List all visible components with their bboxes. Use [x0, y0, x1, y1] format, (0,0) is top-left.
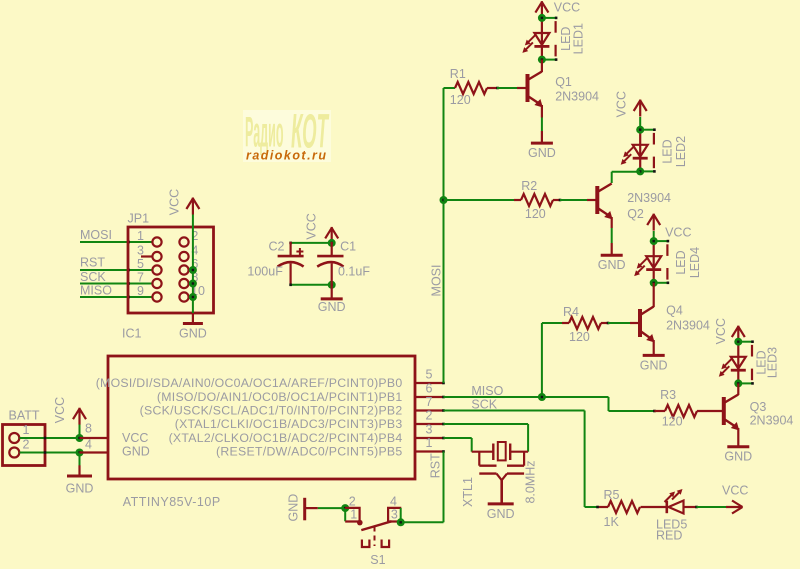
Q1 collector wire [541, 60, 543, 72]
svg-text:BATT: BATT [9, 409, 40, 423]
wire MOSI junction to R2 [444, 199, 515, 201]
IC U1 ATTINY85 outline [108, 356, 415, 479]
Q4 collector wire [653, 283, 655, 307]
IC pin label PB2 [140, 404, 403, 418]
LED4 name labels [674, 247, 702, 278]
svg-text:2: 2 [426, 409, 433, 423]
svg-text:1: 1 [350, 508, 357, 522]
VCC label LED3 [714, 318, 728, 344]
VCC label LED2 [615, 91, 629, 117]
wire battery GND node down [79, 453, 81, 467]
wire RST to switch [401, 521, 444, 523]
junction JP1 pin6 [189, 266, 197, 274]
crystal XTL1 left lead [472, 451, 494, 453]
svg-text:5: 5 [426, 368, 433, 382]
svg-text:C1: C1 [340, 240, 356, 254]
svg-text:VCC: VCC [53, 397, 67, 423]
crystal XTL1 right lead [510, 451, 528, 453]
svg-text:7: 7 [137, 271, 144, 285]
junction MISO R4 [538, 393, 546, 401]
S1 pin number 3 [391, 508, 398, 522]
wire BATT pin2 to GND node [20, 451, 80, 454]
R3 name label [660, 388, 676, 402]
wire MISO jog down [608, 397, 610, 411]
svg-text:3: 3 [426, 423, 433, 437]
VCC symbol right arrow [726, 501, 743, 514]
svg-text:Q2: Q2 [627, 207, 644, 221]
svg-text:R2: R2 [521, 179, 537, 193]
junction JP1 pin8 [189, 280, 197, 288]
ground symbol below JP1 [183, 322, 203, 325]
svg-text:2N3904: 2N3904 [627, 191, 671, 205]
svg-text:GND: GND [598, 258, 626, 272]
connector BATT outline [3, 425, 46, 466]
svg-text:8: 8 [85, 422, 92, 436]
wire C2 bottom to C1 bottom [289, 284, 331, 287]
svg-text:R5: R5 [604, 488, 620, 502]
svg-text:2: 2 [23, 437, 30, 451]
LED2 name labels [660, 136, 688, 167]
wire net MISO to JP1 pin9 [80, 296, 153, 299]
GND label below JP1 [179, 327, 207, 341]
watermark text radiokot.ru [246, 149, 326, 163]
wire BATT pin1 to VCC node [20, 437, 80, 440]
svg-text:9: 9 [137, 284, 144, 298]
LED3 name labels [755, 347, 780, 378]
BATT pin numbers [23, 423, 30, 452]
junction MOSI at R2 [440, 196, 448, 204]
svg-text:(MISO/DO/AIN1/OC0B/OC1A/PCINT1: (MISO/DO/AIN1/OC0B/OC1A/PCINT1)PB1 [157, 390, 403, 404]
svg-text:4: 4 [85, 437, 92, 451]
svg-text:MOSI: MOSI [430, 265, 444, 297]
R1 value 120 [450, 93, 471, 107]
LED5 name label [656, 518, 687, 532]
S1 pin number 1 [350, 508, 357, 522]
VCC symbol LED4 [647, 214, 660, 231]
ground symbol battery [67, 475, 92, 478]
Q1 emitter wire [541, 105, 543, 143]
svg-text:Q1: Q1 [555, 75, 572, 89]
svg-text:LED1: LED1 [571, 23, 585, 54]
JP1 left pin numbers [137, 229, 144, 298]
VCC label at JP1 [168, 189, 182, 215]
IC pin number 2 [426, 409, 433, 423]
GND label crystal [487, 507, 515, 521]
svg-text:GND: GND [528, 146, 556, 160]
crystal XTL1 body [498, 442, 506, 460]
svg-text:120: 120 [569, 330, 590, 344]
svg-text:1: 1 [137, 229, 144, 243]
wire net MOSI to JP1 pin1 [80, 241, 153, 244]
svg-text:0.1uF: 0.1uF [338, 265, 370, 279]
LED5 value RED [656, 529, 682, 543]
svg-text:GND: GND [724, 450, 752, 464]
wire GND to S1 pins [318, 507, 345, 509]
crystal XTL1 right plate [509, 444, 511, 461]
capacitor C1 top lead [331, 242, 333, 256]
switch S1 pin box 1-2 [345, 508, 359, 522]
svg-text:VCC: VCC [305, 213, 319, 239]
resistor R2 lead-in [514, 199, 521, 201]
wire pin2 to crystal right [444, 424, 529, 452]
svg-text:LED2: LED2 [674, 136, 688, 167]
svg-text:LED4: LED4 [688, 247, 702, 278]
capacitor C2 top lead [290, 242, 292, 256]
svg-text:MISO: MISO [471, 384, 503, 398]
IC value ATTINY85V-10P [123, 495, 221, 509]
C2 name label [269, 240, 285, 254]
resistor R2 right lead [553, 199, 561, 202]
svg-text:IC1: IC1 [122, 327, 142, 341]
IC right pin stub PB4 [415, 437, 445, 440]
wire net SCK to JP1 pin7 [80, 282, 153, 285]
wire LED2 to Q2 collector [612, 172, 641, 183]
net label SCK right [471, 398, 497, 412]
C1 name label [340, 240, 356, 254]
C2 value 100uF [247, 265, 283, 279]
net label RST [80, 256, 105, 270]
resonator cap left [479, 452, 496, 474]
svg-text:4: 4 [390, 494, 397, 508]
svg-text:MISO: MISO [80, 284, 112, 298]
Q1 value 2N3904 [555, 89, 599, 103]
Q4 base stub [630, 322, 639, 324]
IC pin number 1 [426, 436, 433, 450]
capacitor C1 top plate [317, 255, 343, 258]
wire VCC to LED4 [653, 231, 655, 241]
resonator cap right [507, 452, 524, 474]
wire net SCK from pin7 [444, 410, 585, 412]
svg-text:GND: GND [179, 327, 207, 341]
capacitor C1 curved plate [317, 262, 343, 267]
S1 pin number 2 [349, 494, 356, 508]
junction S1 pin3 [397, 518, 405, 526]
Q4 emitter wire [653, 340, 655, 355]
capacitor C1 bottom lead [331, 264, 333, 299]
watermark background box [243, 110, 331, 162]
wire R4 lead-in [542, 322, 562, 324]
VCC symbol LED1 [535, 1, 548, 18]
JP1 pin3 stub [141, 255, 152, 257]
crystal XTL1 left plate [492, 444, 494, 461]
svg-text:LED: LED [674, 250, 688, 274]
svg-text:ATTINY85V-10P: ATTINY85V-10P [123, 495, 221, 509]
resistor R1 lead-in [444, 87, 456, 89]
IC right pin stub PB3 [415, 423, 445, 426]
Q1 base stub [517, 87, 527, 89]
XTL1 name label [461, 477, 475, 507]
wire S1 pin2 to pin1 [344, 508, 346, 521]
svg-text:SCK: SCK [471, 398, 497, 412]
svg-text:100uF: 100uF [247, 265, 283, 279]
resistor R1 right lead [487, 87, 499, 90]
LED LED4 [634, 237, 669, 287]
svg-text:GND: GND [122, 445, 150, 459]
VCC symbol above JP1 [186, 198, 199, 215]
transistor Q4 [640, 307, 655, 343]
LED1 name labels [559, 23, 586, 54]
IC pin number 5 [426, 368, 433, 382]
ground symbol at S1 rotated [303, 498, 306, 521]
VCC label LED5 [722, 484, 748, 498]
net label MISO right [471, 384, 503, 398]
svg-text:VCC: VCC [615, 91, 629, 117]
resistor R3 [665, 405, 697, 417]
capacitor C2 top plate [278, 255, 304, 258]
ground symbol Q1 [531, 142, 553, 145]
IC1 label [122, 327, 142, 341]
JP1 right pin circles 2,4,6,8,10 [179, 237, 188, 301]
R2 name label [521, 179, 537, 193]
svg-text:3: 3 [137, 244, 144, 258]
Q2 emitter wire [611, 217, 613, 255]
svg-text:VCC: VCC [168, 189, 182, 215]
VCC symbol above battery node [73, 408, 86, 425]
junction C1 bottom [328, 281, 336, 289]
junction JP1 pin10 [189, 293, 197, 301]
ground symbol below C1 [321, 297, 343, 300]
net label MOSI vertical [430, 265, 444, 297]
svg-text:LED3: LED3 [766, 347, 780, 378]
IC pin label PB0 [96, 376, 403, 390]
capacitor C2 plus sign [296, 248, 303, 255]
IC right pin stub PB2 [415, 409, 445, 412]
svg-text:2N3904: 2N3904 [666, 319, 710, 333]
svg-text:MOSI: MOSI [80, 228, 112, 242]
junction battery GND node [76, 449, 84, 457]
IC left label GND [122, 445, 150, 459]
capacitor C2 bottom lead [290, 264, 292, 286]
svg-text:LED: LED [660, 139, 674, 163]
svg-text:(MOSI/DI/SDA/AIN0/OC0A/OC1A/AR: (MOSI/DI/SDA/AIN0/OC0A/OC1A/AREF/PCINT0)… [96, 376, 403, 390]
svg-text:VCC: VCC [722, 484, 748, 498]
watermark text Radio [245, 109, 284, 157]
LED LED1 [522, 14, 557, 64]
svg-text:1: 1 [23, 423, 30, 437]
resistor R2 [521, 194, 553, 206]
BATT pin circles [9, 433, 19, 458]
svg-text:2N3904: 2N3904 [555, 89, 599, 103]
GND label Q3 [724, 450, 752, 464]
IC pin label PB4 [169, 431, 403, 445]
capacitor C2 curved plate [278, 262, 304, 267]
LED5 arrows [665, 489, 683, 502]
IC pin 4 stub GND [80, 451, 109, 453]
R4 value 120 [569, 330, 590, 344]
GND label below C1 [318, 300, 346, 314]
R5 name label [604, 488, 620, 502]
resistor R4 right lead [601, 322, 609, 325]
svg-text:(RESET/DW/ADC0/PCINT5)PB5: (RESET/DW/ADC0/PCINT5)PB5 [216, 445, 402, 459]
Q2 value 2N3904 [627, 191, 671, 205]
svg-text:120: 120 [450, 93, 471, 107]
switch S1 pin box 3-4 [388, 508, 401, 522]
VCC symbol above C1 [325, 227, 338, 244]
C1 value 0.1uF [338, 265, 370, 279]
RST label vertical [428, 453, 442, 478]
GND label at S1 [287, 494, 301, 522]
svg-text:R4: R4 [563, 305, 579, 319]
XTL1 value 8.0MHz [524, 460, 538, 503]
resistor R5 [608, 501, 640, 513]
resistor R4 [569, 317, 601, 329]
svg-text:XTL1: XTL1 [461, 477, 475, 507]
resistor R3 right lead [697, 410, 723, 412]
S1 pin number 4 [390, 494, 397, 508]
svg-text:C2: C2 [269, 240, 285, 254]
Q1 name label [555, 75, 572, 89]
IC pin label PB3 [175, 417, 403, 431]
Q3 emitter wire [737, 428, 739, 447]
GND label Q2 [598, 258, 626, 272]
IC pin number 3 [426, 423, 433, 437]
svg-text:(SCK/USCK/SCL/ADC1/T0/INT0/PCI: (SCK/USCK/SCL/ADC1/T0/INT0/PCINT2)PB2 [140, 404, 403, 418]
wire MISO to R3 [609, 410, 656, 413]
svg-text:radiokot.ru: radiokot.ru [246, 149, 326, 163]
svg-text:(XTAL1/CLKI/OC1B/ADC3/PCINT3)P: (XTAL1/CLKI/OC1B/ADC3/PCINT3)PB3 [175, 417, 403, 431]
resistor R1 [455, 82, 487, 94]
IC pin8 number [85, 422, 92, 436]
wire SCK to R5 [585, 506, 598, 508]
ground symbol crystal [488, 502, 514, 505]
Q3 value 2N3904 [750, 414, 794, 428]
svg-text:Q3: Q3 [750, 400, 767, 414]
svg-text:2N3904: 2N3904 [750, 414, 794, 428]
R4 name label [563, 305, 579, 319]
IC left label VCC [122, 431, 148, 445]
R5 value 1K [604, 515, 620, 529]
wire net RST down [443, 452, 445, 523]
GND label Q1 [528, 146, 556, 160]
svg-text:7: 7 [426, 395, 433, 409]
net label MOSI [80, 228, 112, 242]
svg-text:R1: R1 [450, 67, 466, 81]
svg-text:1: 1 [426, 436, 433, 450]
svg-text:1K: 1K [604, 515, 620, 529]
svg-text:GND: GND [640, 358, 668, 372]
wire R2 to Q2 base [560, 199, 587, 201]
ground stub below JP1 [192, 313, 194, 324]
resistor R5 lead-in [596, 506, 608, 509]
JP1 left pin circles 1,3,5,7,9 [152, 237, 161, 301]
wire pin3 to crystal left [444, 438, 472, 452]
svg-text:VCC: VCC [665, 226, 691, 240]
R3 value 120 [662, 415, 683, 429]
wire SCK down [584, 411, 586, 508]
svg-text:120: 120 [662, 415, 683, 429]
svg-text:R3: R3 [660, 388, 676, 402]
IC pin label PB1 [157, 390, 403, 404]
transistor Q3 [724, 395, 740, 431]
svg-text:2: 2 [349, 494, 356, 508]
wire S1 pin4 to pin3 [400, 508, 402, 522]
svg-text:120: 120 [525, 207, 546, 221]
resistor R5 right lead [641, 506, 667, 508]
Q4 name label [666, 304, 683, 318]
resistor R3 lead-in [654, 410, 665, 412]
svg-text:VCC: VCC [714, 318, 728, 344]
LED LED5 cathode bar [665, 501, 668, 513]
ground symbol Q4 [643, 354, 665, 357]
wire R4 to Q4 base [608, 322, 630, 324]
R1 name label [450, 67, 466, 81]
wire net RST to JP1 pin5 [80, 269, 153, 272]
svg-text:JP1: JP1 [128, 212, 150, 226]
svg-text:RST: RST [80, 256, 105, 270]
S1 ground stub [305, 507, 318, 509]
svg-text:6: 6 [426, 382, 433, 396]
ground stub battery [78, 465, 80, 476]
BATT name label [9, 409, 40, 423]
IC right pin stub PB1 [415, 396, 445, 399]
S1 name label [370, 553, 385, 567]
Q4 value 2N3904 [666, 319, 710, 333]
transistor Q1 [528, 72, 543, 108]
wire net MOSI vertical [443, 88, 445, 383]
watermark text KOT [291, 106, 329, 159]
wire C2 top to C1 top [289, 242, 331, 245]
VCC symbol LED2 [634, 100, 647, 117]
ground symbol Q2 [601, 254, 623, 257]
LED LED5 triangle [669, 501, 684, 514]
net label MISO [80, 284, 112, 298]
LED LED3 [719, 338, 754, 388]
svg-text:RED: RED [656, 529, 682, 543]
R2 value 120 [525, 207, 546, 221]
IC pin number 7 [426, 395, 433, 409]
wire R1 to Q1 base [497, 87, 517, 89]
JP1 right pin numbers [191, 229, 205, 298]
LED5 anode lead [684, 506, 698, 509]
switch S1 actuator cups [362, 540, 389, 548]
svg-text:SCK: SCK [80, 270, 106, 284]
VCC label LED4 [665, 226, 691, 240]
svg-text:VCC: VCC [122, 431, 148, 445]
junction S1 pin2 [341, 504, 349, 512]
JP1 name label [128, 212, 150, 226]
VCC label at C1 [305, 213, 319, 239]
Q3 name label [750, 400, 767, 414]
wire VCC to LED2 [639, 117, 641, 130]
svg-text:GND: GND [66, 481, 94, 495]
svg-text:5: 5 [137, 257, 144, 271]
IC pin label PB5 [216, 445, 402, 459]
VCC symbol LED3 [732, 326, 745, 343]
svg-text:RST: RST [428, 453, 442, 478]
switch S1 contact dot [357, 520, 363, 526]
IC pin4 number [85, 437, 92, 451]
wire R4 branch vertical [541, 323, 543, 397]
VCC label LED1 [554, 1, 580, 15]
GND label battery [66, 481, 94, 495]
IC pin 8 stub VCC [80, 437, 109, 439]
Q3 collector wire [737, 383, 739, 395]
svg-text:Q4: Q4 [666, 304, 683, 318]
junction battery VCC node [76, 434, 84, 442]
svg-text:(XTAL2/CLKO/OC1B/ADC2/PCINT4)P: (XTAL2/CLKO/OC1B/ADC2/PCINT4)PB4 [169, 431, 403, 445]
LED LED2 [621, 126, 656, 176]
switch S1 plunger dashed [374, 527, 376, 547]
svg-text:3: 3 [391, 508, 398, 522]
GND label Q4 [640, 358, 668, 372]
wire VCC symbol to node [79, 425, 81, 439]
wire LED5 to VCC [697, 506, 728, 508]
wire net MISO from pin6 [444, 396, 609, 398]
resonator center stem [497, 474, 508, 504]
svg-text:GND: GND [287, 494, 301, 522]
svg-text:8.0MHz: 8.0MHz [524, 460, 538, 503]
switch S1 lever [361, 521, 391, 530]
